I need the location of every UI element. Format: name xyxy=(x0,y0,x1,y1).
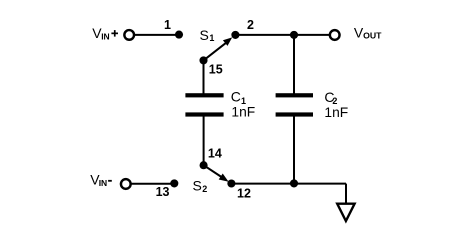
svg-text:2: 2 xyxy=(247,18,254,32)
terminal VIN- xyxy=(121,179,131,189)
node 14 xyxy=(200,147,222,170)
svg-text:15: 15 xyxy=(209,62,223,76)
terminal VOUT xyxy=(330,30,340,40)
node 2 xyxy=(231,18,254,39)
node junction bottom xyxy=(290,179,298,187)
label VIN+ xyxy=(92,25,118,41)
wire xyxy=(293,35,295,94)
svg-text:1: 1 xyxy=(209,33,214,43)
svg-text:1: 1 xyxy=(164,18,171,32)
wire xyxy=(345,184,347,204)
svg-text:13: 13 xyxy=(156,185,170,199)
wire xyxy=(235,34,330,36)
svg-text:14: 14 xyxy=(208,147,222,161)
switch S2 xyxy=(193,165,229,194)
node 12 xyxy=(227,179,251,200)
terminal VIN+ xyxy=(124,30,134,40)
wire xyxy=(203,116,205,166)
ground xyxy=(337,204,354,221)
svg-text:1nF: 1nF xyxy=(324,105,348,120)
svg-text:1nF: 1nF xyxy=(231,105,255,120)
svg-text:IN: IN xyxy=(99,178,108,188)
svg-text:C: C xyxy=(231,89,241,105)
node 15 xyxy=(199,56,222,76)
node junction top xyxy=(290,31,298,39)
svg-text:S: S xyxy=(200,27,209,43)
svg-text:2: 2 xyxy=(202,184,207,194)
switch S1 xyxy=(200,27,233,61)
label VIN- xyxy=(90,172,112,189)
node 1 xyxy=(164,18,183,39)
svg-text:OUT: OUT xyxy=(363,30,382,40)
wire xyxy=(231,183,346,185)
node 13 xyxy=(156,179,179,199)
capacitor C2 xyxy=(276,89,349,120)
wire xyxy=(134,34,179,36)
svg-text:12: 12 xyxy=(237,187,251,201)
wire xyxy=(293,116,295,184)
wire xyxy=(131,183,175,185)
capacitor C1 xyxy=(185,89,255,120)
label VOUT xyxy=(354,25,382,41)
svg-text:S: S xyxy=(193,177,202,193)
svg-text:IN: IN xyxy=(101,32,110,42)
wire xyxy=(203,60,205,94)
